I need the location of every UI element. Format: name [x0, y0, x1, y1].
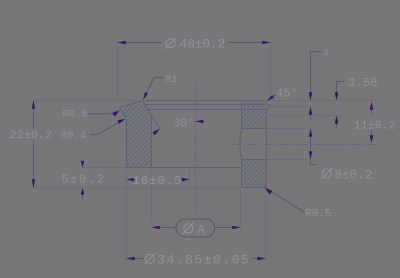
- svg-text:R0.5: R0.5: [63, 109, 88, 121]
- leader R1: [145, 78, 164, 97]
- arrow 11 up: [370, 102, 374, 110]
- centerline vertical: [195, 84, 197, 213]
- part rim far edge line L3: [148, 109, 267, 111]
- diameter symbol of Ø8: [322, 168, 333, 179]
- dim 3.58 lower stem: [336, 124, 338, 129]
- left outer wall: [126, 119, 128, 167]
- leader 45: [273, 94, 277, 97]
- cross hole arc: [240, 129, 242, 160]
- part top edge: [143, 100, 264, 102]
- arrow datum A left: [152, 226, 160, 230]
- dim 11 line lower: [371, 130, 373, 137]
- arrow Ø40 right: [262, 41, 270, 45]
- ext hole top right: [267, 128, 311, 130]
- diameter symbol of datum A: [183, 223, 194, 234]
- svg-text:30°: 30°: [174, 118, 195, 130]
- svg-text:R0.4: R0.4: [61, 130, 86, 142]
- arrow 22 bottom: [32, 179, 36, 187]
- arrow Ø8 up: [309, 129, 313, 137]
- arrow 5 up: [81, 188, 85, 195]
- svg-text:8±0.2: 8±0.2: [335, 169, 373, 183]
- inner left wall: [151, 116, 153, 168]
- arrow 30 at slant: [152, 129, 160, 135]
- dim 16 right ext: [189, 169, 191, 188]
- svg-text:40±0.2: 40±0.2: [180, 37, 226, 52]
- arrow 22 top: [32, 101, 36, 109]
- right outer wall: [266, 110, 268, 185]
- right bottom corner R0.5: [264, 185, 267, 187]
- datum A stadium: [176, 219, 215, 237]
- svg-text:1: 1: [324, 48, 329, 58]
- dim 3.58 bracket: [337, 82, 345, 96]
- svg-text:16±0.5: 16±0.5: [133, 174, 183, 188]
- dim 1 lower stem: [310, 115, 312, 121]
- arrow 5 down: [81, 161, 85, 168]
- diameter symbol of Ø34.85: [144, 253, 155, 264]
- hatch right wall upper: [242, 101, 271, 129]
- left wall bottom face and bore bottom far edge: [127, 167, 241, 169]
- datum A right line: [215, 227, 233, 229]
- leader R0.5 left: [88, 111, 118, 114]
- dim Ø40 ext right: [270, 46, 272, 104]
- svg-text:11±0.2: 11±0.2: [354, 120, 396, 132]
- ext line y167.7 left: [82, 167, 127, 169]
- dim Ø34.85 line: [127, 258, 266, 260]
- arrow dim1 down: [309, 92, 313, 100]
- inner right wall lower: [241, 160, 243, 188]
- arrow 11 down: [370, 135, 374, 143]
- dim Ø34.85 left ext: [126, 169, 128, 262]
- arrow Ø34.85 right: [257, 257, 265, 261]
- arrow 30 at centerline: [195, 120, 203, 124]
- svg-text:R0.5: R0.5: [305, 209, 331, 221]
- ext hole bottom right: [267, 159, 311, 161]
- arrow R1: [143, 92, 148, 100]
- cross hole top edge: [242, 128, 267, 130]
- leader R0.4 left: [91, 120, 124, 135]
- svg-text:R1: R1: [165, 74, 178, 86]
- arrow dim1 up: [309, 107, 313, 115]
- svg-text:5±0.2: 5±0.2: [61, 173, 105, 187]
- 30 deg taper: [143, 101, 160, 129]
- ext L2 right: [271, 106, 316, 108]
- datum A left line: [160, 227, 176, 229]
- right step under chamfer: [267, 107, 271, 111]
- arrow 45: [267, 95, 275, 101]
- cross hole bottom edge: [242, 159, 267, 161]
- hatch right wall lower: [242, 160, 267, 188]
- dim Ø8 stem and leader: [311, 129, 318, 165]
- dim 22 top ext: [34, 100, 143, 102]
- arrow Ø40 left: [118, 41, 126, 45]
- svg-text:A: A: [198, 224, 206, 238]
- svg-text:34.85±0.05: 34.85±0.05: [157, 252, 250, 267]
- datum A ext right x240.7: [240, 189, 242, 228]
- cross hole axis centerline: [230, 144, 380, 146]
- dim 11 line upper: [371, 108, 373, 114]
- dim Ø40 ext left: [117, 46, 119, 102]
- arrow 3.58 down: [335, 92, 339, 100]
- svg-text:45°: 45°: [276, 87, 298, 101]
- ext line 3.58 y114.9: [267, 115, 342, 117]
- hatch left wall: [120, 101, 152, 168]
- dim 22 line: [33, 101, 35, 188]
- leader R0.5 bottom: [265, 188, 305, 213]
- arrow R0.5 left: [112, 110, 119, 116]
- part rim far edge line L2: [145, 104, 266, 106]
- left rim slope: [120, 101, 143, 108]
- dim Ø34.85 right ext: [265, 194, 267, 262]
- datum A ext left x151.4: [151, 170, 153, 222]
- inner right wall upper: [241, 101, 243, 129]
- top edge ext right: [267, 100, 380, 102]
- arrow Ø8 down: [309, 151, 313, 159]
- dim 5 arrows stems: [82, 195, 84, 200]
- left groove slope R0.5/R0.4: [120, 107, 127, 119]
- right 45 chamfer: [264, 101, 271, 107]
- arrow R0.5 bottom: [265, 188, 272, 195]
- arrow R0.4 left: [118, 119, 126, 124]
- svg-text:3.58: 3.58: [348, 76, 378, 90]
- diameter symbol of Ø40: [165, 37, 176, 49]
- right wall bottom face: [242, 187, 265, 189]
- arrow Ø34.85 left: [127, 257, 135, 261]
- arrow datum A right: [232, 226, 240, 230]
- arrow 3.58 up: [335, 116, 339, 124]
- svg-text:22±0.2: 22±0.2: [10, 130, 52, 142]
- bottom ext line y188: [31, 187, 242, 189]
- dim Ø40 line: [118, 42, 271, 44]
- dim 1 bracket: [311, 52, 323, 97]
- arrow 16 right: [182, 178, 190, 181]
- arrow 16 left: [127, 178, 135, 181]
